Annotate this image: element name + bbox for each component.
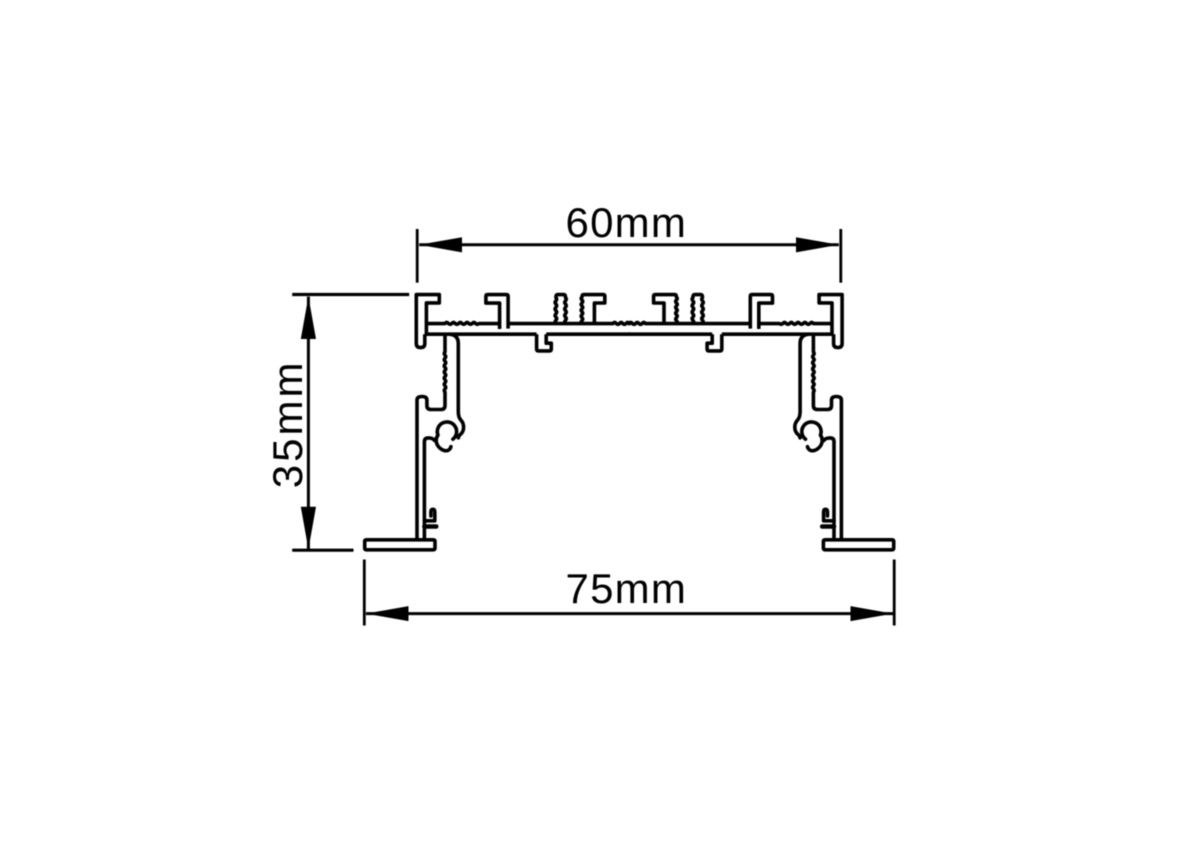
75mm dimension line (366, 612, 893, 615)
left end tab / edge wing (mirrored right) (819, 295, 842, 348)
right half of extrusion profile (mirror) (628, 295, 894, 550)
spring-clip C curl (436, 422, 456, 451)
60mm arrowhead right (796, 237, 839, 252)
tooth B (narrow serrated) (555, 295, 566, 324)
75mm arrowhead left (366, 606, 409, 621)
60mm dimension line (419, 243, 839, 246)
tooth A (hook, opens left) (mirrored right) (750, 295, 772, 329)
leg inner wall (424, 438, 434, 540)
mounting foot flange (mirrored right) (823, 540, 893, 550)
svg-text:75mm: 75mm (566, 565, 688, 612)
cavity inner wall and upper clip finger (450, 334, 464, 438)
60mm extension tick left (416, 229, 419, 283)
75mm extension tick left (363, 560, 366, 626)
plate top surface (knurled) (mirrored right) (628, 322, 832, 324)
serrated channel wall, web bottom and leg outer wall (417, 334, 446, 540)
lower retaining hook bar (mirrored right) (822, 524, 834, 529)
tooth A (hook, opens left) (486, 295, 508, 329)
35mm arrowhead bottom (301, 507, 316, 549)
leg inner wall (mirrored right) (824, 438, 834, 540)
60mm arrowhead left (419, 237, 462, 252)
mounting foot flange (365, 540, 435, 550)
hanging hook below top plate (mirrored right) (707, 334, 722, 351)
tooth C (hook, opens right) (581, 295, 605, 324)
plate bottom / cavity ceiling (425, 332, 631, 336)
left half of extrusion profile (365, 295, 631, 550)
plate top surface (knurled) (427, 322, 631, 324)
serrated channel wall, web bottom and leg outer wall (mirrored right) (813, 334, 842, 540)
cavity inner wall and upper clip finger (mirrored right) (795, 334, 809, 438)
75mm arrowhead right (851, 606, 894, 621)
35mm dimension line (307, 297, 310, 550)
35mm arrowhead top (301, 297, 316, 339)
tooth C (hook, opens right) (mirrored right) (654, 295, 678, 324)
lower retaining hook bar (424, 524, 436, 529)
left end tab / edge wing (416, 295, 439, 348)
lower retaining hook finger (424, 509, 434, 521)
tooth B (narrow serrated) (mirrored right) (692, 295, 703, 324)
svg-text:35mm: 35mm (264, 360, 311, 489)
plate bottom / cavity ceiling (mirrored right) (628, 332, 834, 336)
svg-text:60mm: 60mm (566, 199, 688, 246)
35mm top extension line (292, 293, 409, 296)
hanging hook below top plate (537, 334, 552, 351)
35mm bottom extension line (292, 549, 353, 552)
lower retaining hook finger (mirrored right) (824, 509, 834, 521)
spring-clip C curl (mirrored right) (802, 422, 822, 451)
60mm extension tick right (839, 229, 842, 283)
75mm extension tick right (893, 560, 896, 626)
